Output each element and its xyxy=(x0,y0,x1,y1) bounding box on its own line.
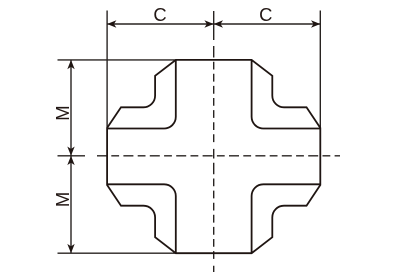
arrow M middle down-pointing xyxy=(67,147,74,156)
arrow M bottom xyxy=(67,244,74,253)
svg-text:M: M xyxy=(52,192,73,207)
inner silhouette bottom-left xyxy=(107,184,176,253)
extension line top (M) xyxy=(58,59,176,61)
dimension line M (vertical) xyxy=(70,60,72,253)
inner silhouette bottom-right xyxy=(252,184,321,253)
svg-text:M: M xyxy=(52,105,73,120)
arrow C center right-pointing xyxy=(204,20,213,27)
cross fitting body: outer outline with socket bands xyxy=(107,60,320,253)
arrow C center left-pointing xyxy=(214,20,223,27)
arrow C right end xyxy=(311,20,320,27)
dimension line C (horizontal) xyxy=(107,23,320,25)
svg-text:C: C xyxy=(153,4,166,25)
extension line left (C) xyxy=(106,11,108,128)
svg-text:C: C xyxy=(259,4,272,25)
extension line right (C) xyxy=(319,11,321,128)
extension line bottom (M) xyxy=(58,252,176,254)
inner silhouette top-left xyxy=(107,60,176,129)
arrow M top xyxy=(67,60,74,69)
arrowheads xyxy=(67,20,320,253)
arrow C left end xyxy=(107,20,116,27)
horizontal center line xyxy=(58,155,341,157)
inner silhouette top-right xyxy=(252,60,321,129)
arrow M middle up-pointing xyxy=(67,156,74,165)
vertical center line xyxy=(213,11,215,272)
